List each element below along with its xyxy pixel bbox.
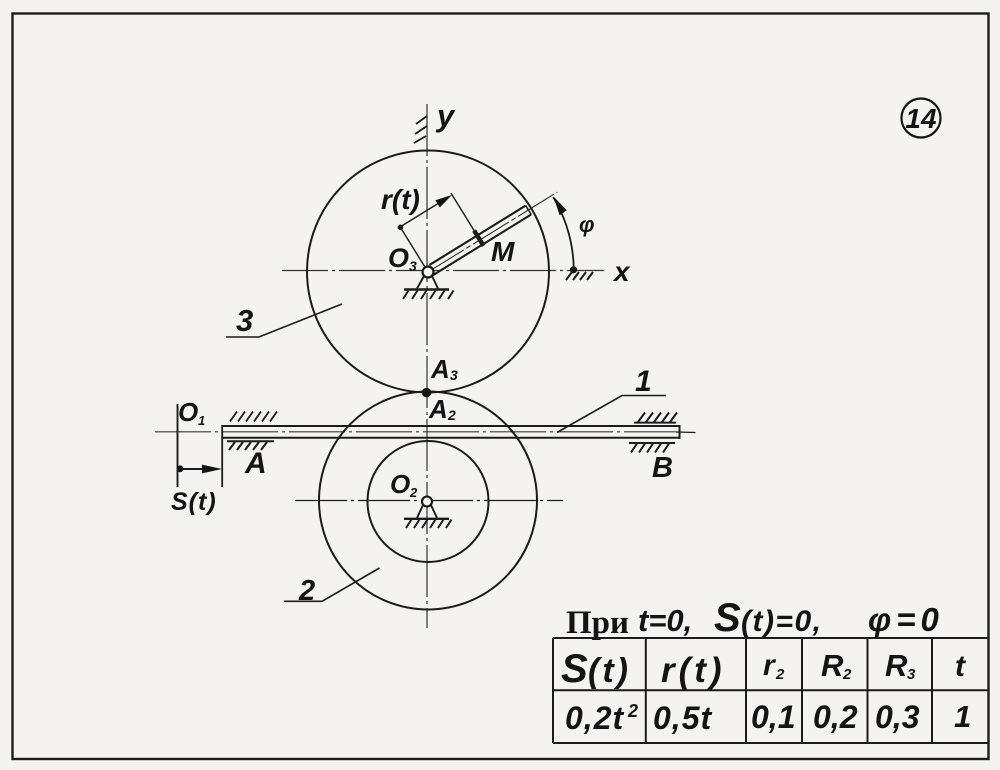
svg-text:2: 2	[298, 575, 315, 607]
rod centerline	[428, 192, 557, 272]
svg-text:0,5t: 0,5t	[653, 700, 712, 736]
svg-text:0,1: 0,1	[751, 699, 795, 735]
r(t) dimension start dot	[397, 223, 405, 231]
svg-text:2: 2	[775, 666, 785, 683]
O1 reference line	[177, 404, 179, 487]
svg-text:O: O	[388, 243, 409, 273]
label 2 leader	[284, 568, 380, 601]
svg-text:S: S	[561, 647, 588, 691]
svg-text:2: 2	[627, 701, 638, 721]
svg-text:0,2t: 0,2t	[565, 700, 624, 736]
svg-text:14: 14	[905, 103, 937, 134]
data table grid	[553, 638, 988, 743]
pivot O2 support	[404, 505, 452, 528]
svg-text:B: B	[652, 452, 673, 484]
rod body (double line)	[430, 206, 526, 265]
O2 horizontal centerline	[295, 500, 563, 502]
svg-text:R: R	[821, 648, 844, 683]
M extension line	[451, 193, 476, 233]
x axis (horizontal centerline of wheel 3)	[282, 270, 604, 272]
guide hatching below A	[227, 441, 274, 450]
svg-text:t: t	[955, 650, 967, 683]
pivot O3 pin	[423, 267, 434, 278]
r(t) dimension line	[400, 197, 448, 226]
wheel 2 outer circle R2	[319, 392, 537, 610]
tangency point dot A3/A2	[422, 388, 432, 398]
guide hatching above B	[634, 413, 677, 423]
svg-text:M: M	[491, 236, 515, 267]
phi arc arrowhead	[554, 197, 567, 216]
svg-text:2: 2	[842, 666, 852, 683]
svg-text:2: 2	[409, 485, 418, 500]
svg-text:(t): (t)	[588, 652, 631, 690]
svg-text:A: A	[244, 447, 267, 480]
S(t) dimension arrow	[179, 468, 214, 470]
rod OM with r(t) dimension (rotated about pivot O3)	[396, 143, 561, 279]
svg-text:3: 3	[450, 367, 458, 383]
svg-text:r: r	[763, 649, 777, 682]
svg-text:φ=0: φ=0	[868, 601, 944, 638]
r(t) extension line at O3	[400, 227, 428, 272]
pivot O3 support	[403, 276, 454, 299]
svg-text:(t)=0,: (t)=0,	[741, 605, 823, 638]
svg-text:1: 1	[954, 699, 971, 734]
svg-text:При: При	[566, 605, 629, 641]
svg-text:1: 1	[635, 365, 652, 398]
S(t) dimension dot	[177, 465, 184, 472]
guide hatching below B	[629, 443, 675, 453]
label 1 leader	[557, 396, 666, 433]
problem number badge 14	[902, 99, 941, 138]
rack bar 1 centerline tail	[676, 431, 696, 434]
svg-text:r(t): r(t)	[381, 184, 420, 215]
svg-text:2: 2	[447, 407, 456, 423]
svg-text:0,2: 0,2	[813, 699, 858, 735]
rack bar 1 body	[222, 425, 680, 487]
initial conditions text	[566, 596, 944, 641]
svg-text:R: R	[885, 648, 908, 683]
svg-text:A: A	[428, 394, 448, 424]
svg-text:x: x	[612, 256, 631, 287]
phi reference dot on x axis	[570, 266, 577, 273]
svg-text:0,3: 0,3	[875, 699, 920, 735]
svg-text:1: 1	[198, 413, 205, 428]
svg-text:O: O	[390, 469, 410, 499]
svg-text:φ: φ	[579, 212, 594, 237]
svg-text:S(t): S(t)	[171, 488, 217, 516]
wheel 3 (circle R3)	[307, 151, 549, 393]
svg-text:A: A	[430, 354, 450, 384]
svg-text:3: 3	[409, 258, 417, 274]
wheel 2 inner circle r2	[368, 441, 489, 562]
y axis hatching	[414, 116, 427, 143]
svg-text:y: y	[435, 98, 456, 133]
hatching at phi reference	[566, 272, 593, 280]
svg-text:3: 3	[236, 303, 253, 338]
svg-text:3: 3	[907, 666, 916, 683]
svg-text:O: O	[178, 397, 198, 427]
svg-text:S: S	[714, 596, 741, 640]
phi angle arc	[553, 197, 574, 270]
y axis (vertical centerline)	[426, 104, 428, 628]
M tick mark	[474, 231, 483, 246]
label 3 leader	[226, 304, 342, 337]
svg-text:t=0,: t=0,	[638, 603, 692, 638]
guide hatching above A	[230, 412, 277, 422]
rack bar 1 centerline	[155, 431, 676, 433]
r(t) arrowhead	[435, 191, 454, 207]
pivot O2 pin	[422, 497, 432, 507]
svg-text:r(t): r(t)	[661, 651, 726, 690]
